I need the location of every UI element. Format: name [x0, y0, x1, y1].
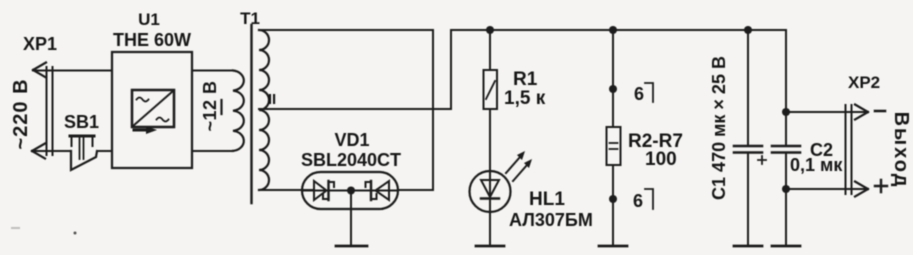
converter U1 symbol [132, 90, 174, 134]
label plus [875, 180, 887, 192]
bundle mark top [645, 83, 653, 102]
ground VD1 [336, 245, 367, 248]
connector XP1 body [47, 67, 53, 155]
wire [192, 150, 233, 152]
svg-text:R1: R1 [513, 69, 538, 90]
wire [612, 30, 614, 127]
wire positive rail [451, 29, 786, 31]
ground R2-R7 [599, 245, 627, 248]
ground C1 [734, 245, 762, 248]
node XP2 plus [782, 185, 790, 193]
speck [11, 227, 20, 229]
node rail R2-R7 [609, 26, 617, 34]
wire [786, 188, 867, 190]
svg-text:T1: T1 [240, 9, 260, 28]
svg-text:SBL2040CT: SBL2040CT [301, 150, 401, 170]
svg-text:1,5 к: 1,5 к [504, 88, 546, 109]
wire [785, 153, 787, 246]
wire secondary tap [259, 30, 451, 109]
resistor R2-R7 [607, 127, 621, 165]
wire [489, 212, 491, 246]
svg-text:~12 В: ~12 В [200, 80, 220, 131]
node R2-R7 top [609, 85, 617, 93]
wire secondary top [259, 30, 433, 190]
svg-text:100: 100 [645, 149, 677, 170]
wire rail end down [785, 30, 787, 145]
LED HL1 [470, 151, 533, 212]
transformer T1 core [250, 25, 252, 203]
svg-text:XP2: XP2 [848, 73, 880, 92]
wire [32, 150, 71, 152]
wire [747, 30, 749, 145]
ground C2 [772, 245, 800, 248]
wire [612, 165, 614, 246]
node rail C1 [744, 26, 752, 34]
svg-text:VD1: VD1 [334, 130, 369, 150]
transformer T1 winding II [259, 30, 269, 190]
connector XP2 pin bottom [855, 182, 868, 197]
bundle mark bottom [645, 189, 653, 209]
wire [747, 153, 749, 246]
label minus [875, 110, 885, 113]
wire [786, 111, 867, 113]
capacitor C1 [734, 146, 766, 164]
svg-text:6: 6 [633, 191, 643, 211]
ground HL1 [476, 245, 504, 248]
connector XP1 pin top [33, 63, 46, 78]
svg-text:XP1: XP1 [23, 34, 57, 54]
svg-text:0,1 мк: 0,1 мк [790, 155, 843, 175]
wire [489, 30, 491, 70]
node R2-R7 bottom [609, 195, 617, 203]
connector XP2 body [846, 105, 852, 194]
wire [33, 70, 112, 72]
connector XP2 pin top [855, 105, 868, 120]
svg-text:С1 470 мк × 25 В: С1 470 мк × 25 В [709, 56, 729, 200]
svg-text:6: 6 [634, 84, 644, 104]
node VD1 common cathode [347, 187, 355, 195]
svg-text:II: II [268, 91, 276, 108]
svg-text:АЛ307БМ: АЛ307БМ [509, 210, 593, 230]
resistor R1 [484, 70, 498, 109]
wire [350, 191, 352, 247]
node XP2 minus [782, 108, 790, 116]
connector XP1 pin bottom [32, 144, 45, 159]
svg-text:Выход: Выход [890, 112, 912, 189]
wire [489, 109, 491, 171]
wire secondary bottom [259, 189, 314, 191]
svg-text:HL1: HL1 [529, 189, 565, 210]
transformer T1 winding I [233, 71, 244, 151]
svg-text:SB1: SB1 [64, 112, 99, 132]
switch SB1 [70, 136, 97, 170]
diode assembly VD1 [302, 172, 398, 209]
converter U1 box [112, 52, 192, 168]
label winding I [220, 100, 222, 114]
node rail R1 [486, 26, 494, 34]
svg-text:U1: U1 [138, 10, 160, 29]
wire [97, 150, 112, 152]
svg-text:THE 60W: THE 60W [113, 30, 191, 50]
svg-text:~220 В: ~220 В [10, 78, 32, 149]
capacitor C2 [772, 146, 800, 153]
wire [192, 70, 233, 72]
